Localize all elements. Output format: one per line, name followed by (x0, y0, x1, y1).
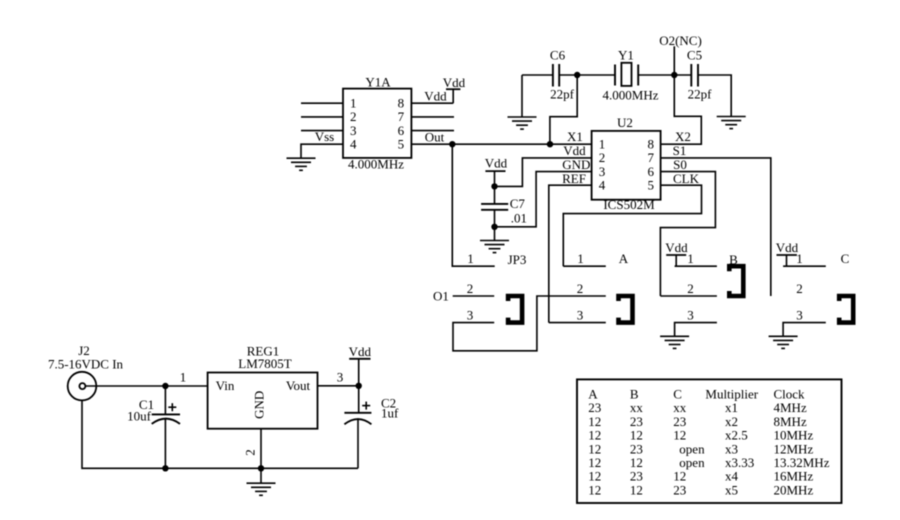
wire left ground drop (521, 75, 523, 117)
svg-text:X2: X2 (675, 129, 691, 144)
wire S1 net: U2 pin 7 to C pin 2 (661, 158, 771, 296)
ground left of C6 (508, 117, 537, 129)
svg-text:7.5-16VDC In: 7.5-16VDC In (48, 357, 124, 372)
A pin 2 number (577, 281, 584, 296)
net label O1 (433, 288, 449, 303)
svg-text:ICS502M: ICS502M (603, 197, 655, 212)
svg-text:23: 23 (673, 482, 686, 497)
net label GND at U2 pin 3 (562, 157, 590, 172)
table multiplier settings (577, 379, 842, 503)
ground below REG1 (247, 483, 276, 495)
net label X1 (567, 129, 583, 144)
Y1A pin 7 (398, 109, 405, 124)
wire C pin 3 to ground (783, 323, 826, 337)
wire Y1A pin 1 stub (301, 102, 343, 104)
wire C6 to Y1 (559, 74, 615, 76)
ground below B (660, 336, 689, 348)
U2 pin 8 (647, 137, 654, 152)
svg-text:S0: S0 (673, 157, 687, 172)
svg-text:2: 2 (243, 449, 258, 456)
B pin 2 number (687, 281, 694, 296)
svg-text:2: 2 (687, 281, 694, 296)
jumper C (841, 251, 850, 266)
capacitor C2 (344, 386, 399, 469)
wire Vdd net to U2 pin 2 (495, 158, 592, 187)
svg-text:Out: Out (425, 130, 445, 145)
svg-text:x5: x5 (725, 482, 738, 497)
junction Vout / Vdd / C2 (356, 383, 362, 389)
Y1A pin 8 (398, 96, 405, 111)
svg-text:Vdd: Vdd (349, 344, 372, 359)
wire J2 to REG1 Vin (85, 385, 207, 387)
IC U2 ICS502M (592, 115, 661, 212)
net label S0 (673, 157, 687, 172)
junction Vdd / C7 top (491, 183, 497, 189)
wire JP3 pin 3 loop to A pin 2 (453, 296, 606, 351)
jumper B (729, 252, 738, 267)
svg-text:C5: C5 (687, 48, 702, 63)
ground right of C5 (717, 117, 746, 129)
svg-text:Vdd: Vdd (563, 143, 586, 158)
wire S0 net: U2 pin 6 to B pin 2 (660, 172, 715, 296)
svg-text:Vdd: Vdd (665, 240, 688, 255)
svg-text:U2: U2 (617, 115, 633, 130)
wire Y1A pin 4 to ground (301, 144, 343, 158)
svg-text:10uf: 10uf (127, 409, 152, 424)
wire A pin 3 stub (549, 322, 606, 324)
oscillator Y1A (343, 75, 411, 172)
wire JP3 pin 2 stub (453, 295, 495, 297)
junction Out / X1 (547, 141, 553, 147)
wire CLK net: U2 pin 5 to A pin 1 (563, 185, 701, 266)
junction C1 top (162, 383, 168, 389)
wire Y1 to C5 (638, 74, 691, 76)
svg-text:4: 4 (350, 137, 357, 152)
svg-text:C7: C7 (510, 196, 526, 211)
svg-text:1: 1 (796, 251, 803, 266)
U2 pin 2 (599, 150, 606, 165)
svg-text:3: 3 (796, 308, 803, 323)
wire X2 branch (661, 75, 702, 144)
wire Y1A pin 8 stub (411, 102, 453, 104)
wire REG1 Vout (318, 385, 359, 387)
U2 pin 3 (599, 164, 606, 179)
wire B pin 2 stub (660, 295, 717, 297)
svg-text:Y1A: Y1A (365, 75, 391, 90)
net label CLK (673, 171, 700, 186)
wire crystal top net left (522, 74, 553, 76)
svg-text:3: 3 (337, 370, 344, 385)
jumper JP3 (508, 252, 527, 267)
capacitor C5 (687, 48, 712, 102)
svg-text:LM7805T: LM7805T (238, 356, 292, 371)
svg-text:O2(NC): O2(NC) (659, 33, 702, 48)
svg-text:3: 3 (467, 308, 474, 323)
svg-text:GND: GND (251, 391, 266, 419)
svg-text:1: 1 (687, 251, 694, 266)
U2 pin 6 (647, 164, 654, 179)
svg-text:20MHz: 20MHz (774, 482, 814, 497)
Y1A pin 2 (350, 109, 357, 124)
wire B pin 1 stub (675, 265, 717, 267)
wire C5 to right ground (698, 75, 731, 117)
svg-text:1: 1 (577, 251, 584, 266)
net label REF at U2 pin 4 (562, 171, 586, 186)
shunt on C pins 2-3 (839, 296, 853, 323)
wire Y1A pin 7 stub (411, 116, 454, 118)
C pin 1 number (796, 251, 803, 266)
C pin 3 number (796, 308, 803, 323)
svg-text:1uf: 1uf (381, 406, 399, 421)
svg-text:3: 3 (687, 308, 694, 323)
wire GND net to U2 pin 3 (495, 172, 592, 227)
shunt on A pins 2-3 (619, 296, 633, 323)
svg-text:12: 12 (630, 482, 643, 497)
power Vdd at Y1A pin 8 (443, 75, 466, 103)
jumper A (619, 251, 629, 266)
junction crystal left (574, 72, 580, 78)
svg-text:22pf: 22pf (688, 87, 713, 102)
junction C7 bottom / GND net (491, 224, 497, 230)
Y1A pin 4 (350, 137, 357, 152)
wire Out net: Y1A pin 5 to U2 pin 1 (411, 143, 591, 145)
svg-text:2: 2 (796, 281, 803, 296)
svg-text:REF: REF (562, 171, 586, 186)
U2 pin 4 (599, 178, 606, 193)
REG1 pin 1 number (180, 370, 187, 385)
Y1A pin 3 (350, 123, 357, 138)
U2 pin 1 (599, 137, 606, 152)
wire Y1A pin 3 stub (301, 130, 343, 132)
svg-text:GND: GND (562, 157, 590, 172)
ground below C (769, 336, 798, 348)
net label X2 (675, 129, 691, 144)
B pin 3 number (687, 308, 694, 323)
regulator REG1 LM7805T (208, 344, 318, 429)
net label Vdd on pin 8 wire (424, 89, 447, 104)
wire ground drop below rail (260, 468, 262, 483)
REG1 pin 2 number (243, 449, 258, 456)
svg-text:2: 2 (577, 281, 584, 296)
JP3 pin 1 number (467, 251, 474, 266)
svg-text:O1: O1 (433, 288, 449, 303)
capacitor C6 (550, 48, 575, 102)
junction Out / JP3 (449, 141, 455, 147)
wire C7 ground drop (494, 227, 496, 241)
power Vdd at C7 (485, 156, 508, 187)
wire REF net: U2 pin 4 to A pin 3 (549, 185, 592, 322)
junction REG1 ground (258, 465, 264, 471)
svg-text:S1: S1 (673, 143, 687, 158)
svg-text:4: 4 (599, 178, 606, 193)
U2 pin 7 (647, 150, 654, 165)
JP3 pin 2 number (467, 281, 474, 296)
svg-text:1: 1 (180, 370, 187, 385)
svg-text:Vout: Vout (286, 378, 311, 393)
wire JP3 pin 1 from Out (452, 144, 494, 266)
svg-text:3: 3 (577, 308, 584, 323)
svg-text:Vss: Vss (315, 129, 335, 144)
wire J2 ground side (82, 400, 358, 468)
svg-text:C: C (841, 251, 850, 266)
shunt on JP3 pins 2-3 (508, 296, 522, 323)
node O2(NC) (659, 33, 702, 75)
REG1 pin 3 number (337, 370, 344, 385)
wire A pin 1 stub (563, 265, 606, 267)
svg-text:Vdd: Vdd (485, 156, 508, 171)
svg-text:Vdd: Vdd (776, 240, 799, 255)
svg-text:Vdd: Vdd (424, 89, 447, 104)
svg-text:C6: C6 (550, 48, 566, 63)
svg-text:1: 1 (467, 251, 474, 266)
JP3 pin 3 number (467, 308, 474, 323)
svg-text:5: 5 (647, 178, 654, 193)
Y1A pin 5 (398, 137, 405, 152)
svg-text:5: 5 (398, 137, 405, 152)
connector J2 (48, 343, 124, 400)
U2 pin 5 (647, 178, 654, 193)
svg-text:X1: X1 (567, 129, 583, 144)
svg-text:4.000MHz: 4.000MHz (348, 157, 404, 172)
power Vdd at B pin 1 (665, 240, 688, 266)
A pin 1 number (577, 251, 584, 266)
B pin 1 number (687, 251, 694, 266)
svg-text:12: 12 (588, 482, 601, 497)
svg-text:.01: .01 (511, 211, 527, 226)
node Vss (315, 129, 335, 144)
junction C1 bottom (162, 465, 168, 471)
power Vdd at C pin 1 (776, 240, 799, 266)
Y1A pin 6 (398, 123, 405, 138)
wire B pin 3 to ground (675, 323, 717, 337)
wire X1 branch (550, 75, 577, 144)
power Vdd at REG1 output (349, 344, 372, 386)
svg-text:2: 2 (467, 281, 474, 296)
svg-text:Vin: Vin (216, 378, 235, 393)
net label Out (425, 130, 445, 145)
svg-text:22pf: 22pf (550, 87, 575, 102)
svg-text:A: A (619, 251, 629, 266)
capacitor C7 (481, 186, 527, 226)
Y1A pin 1 (350, 96, 357, 111)
svg-text:Y1: Y1 (618, 48, 634, 63)
capacitor C1 (127, 386, 180, 469)
net label S1 (673, 143, 687, 158)
crystal Y1 (603, 48, 659, 103)
ground below C7 (480, 241, 509, 253)
ground Vss (287, 158, 316, 170)
svg-text:CLK: CLK (673, 171, 700, 186)
wire REG1 GND pin 2 (260, 429, 262, 469)
A pin 3 number (577, 308, 584, 323)
wire Y1A pin 2 stub (301, 116, 343, 118)
junction crystal right (671, 72, 677, 78)
svg-text:4.000MHz: 4.000MHz (603, 88, 659, 103)
wire C pin 1 stub (783, 265, 826, 267)
net label Vdd at U2 pin 2 (563, 143, 586, 158)
C pin 2 number (796, 281, 803, 296)
wire Y1A pin 6 stub (411, 130, 454, 132)
shunt on B pins 1-2 (729, 266, 743, 296)
svg-text:JP3: JP3 (508, 252, 527, 267)
